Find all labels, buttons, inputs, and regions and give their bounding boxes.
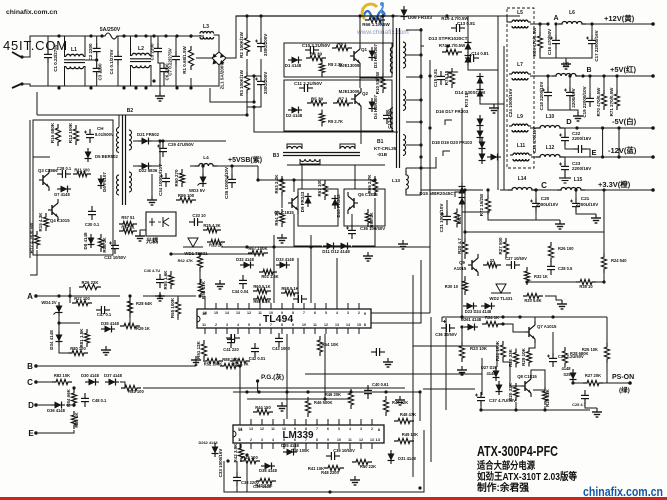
capacitor C46b — [156, 274, 164, 288]
svg-text:D1 4148: D1 4148 — [285, 63, 302, 68]
+5VSB output — [228, 155, 262, 164]
C22 label — [572, 131, 581, 136]
Q1 part label — [339, 63, 360, 68]
site logo — [362, 2, 385, 25]
svg-text:D16 D17 FR303: D16 D17 FR303 — [436, 109, 469, 114]
R2 label — [239, 31, 244, 58]
12v dot1 — [538, 22, 541, 25]
U1 pin stub bottom 12 — [336, 328, 338, 334]
capacitor C43 — [275, 333, 283, 347]
U1 pin number top 0 — [203, 311, 207, 315]
R8 label — [328, 62, 343, 67]
driver rail top — [287, 164, 385, 166]
svg-text:E: E — [28, 429, 34, 438]
Q2 part label — [339, 89, 360, 94]
capacitor C38 — [233, 472, 241, 486]
U3 pin number top 8 — [327, 427, 329, 431]
U1 pin9 — [364, 311, 367, 316]
node A — [553, 15, 558, 22]
R20 label — [457, 238, 462, 254]
R28p label — [570, 351, 588, 356]
svg-text:6: 6 — [314, 311, 316, 315]
resistor R17 — [34, 231, 39, 249]
capacitor C25p — [581, 390, 589, 404]
C5 leads — [157, 36, 159, 43]
C28r label — [558, 266, 573, 271]
junction dot 41 — [68, 294, 71, 297]
inductor L12 — [536, 155, 564, 158]
Q2 emitter wire — [360, 110, 362, 144]
D27d label — [481, 365, 498, 370]
U3 pin stub bot 9 — [338, 443, 340, 449]
C13 label — [457, 21, 476, 26]
texture label r73 — [464, 92, 469, 107]
driver top rail — [258, 166, 375, 180]
capacitor C15 — [437, 71, 445, 85]
12v cap gnd — [540, 49, 592, 58]
3v3 feed dot — [463, 188, 466, 191]
diode D27d — [493, 367, 500, 381]
C23 mid tap — [85, 59, 97, 61]
U1 pin number top 3 — [236, 311, 240, 315]
B1 sec tap 6 — [406, 167, 421, 169]
svg-text:3: 3 — [226, 323, 228, 327]
P.G. label — [261, 372, 284, 381]
U1 pin number bottom 5 — [259, 323, 261, 327]
c31 wires — [446, 200, 448, 211]
resistor R8 — [319, 60, 324, 77]
svg-text:D37 4148: D37 4148 — [104, 373, 122, 378]
U3 pin stub bot 0 — [239, 443, 241, 449]
+12V output label — [604, 13, 635, 23]
R9 label — [328, 119, 343, 124]
R85 label — [74, 412, 79, 428]
D3 label — [373, 43, 378, 68]
B2 label — [127, 108, 134, 114]
svg-text:3: 3 — [347, 311, 349, 315]
svg-text:2: 2 — [250, 438, 252, 442]
resistor R20p — [513, 349, 518, 368]
resistor R55 — [168, 271, 173, 289]
svg-text:C18 2200/10V: C18 2200/10V — [539, 82, 544, 111]
D27d label2 — [486, 371, 496, 376]
R19 label — [441, 16, 469, 21]
R01 label — [261, 274, 278, 279]
svg-text:MJE13009: MJE13009 — [339, 89, 360, 94]
node A dot — [546, 22, 549, 25]
inductor L8 — [552, 74, 580, 77]
inductor L10 — [536, 126, 564, 129]
dashed inductor box — [507, 8, 534, 168]
pson rail dot1 — [518, 315, 521, 318]
svg-text:15: 15 — [214, 311, 218, 315]
watermark www url — [356, 29, 409, 36]
svg-text:1: 1 — [239, 438, 241, 442]
svg-text:C33 10: C33 10 — [192, 213, 206, 218]
svg-text:C25 4.7: C25 4.7 — [572, 402, 586, 407]
svg-text:1: 1 — [204, 323, 206, 327]
pson out dot — [571, 381, 574, 384]
B1 primary top lead — [392, 16, 394, 47]
junction dot 51 — [238, 364, 241, 367]
R49b label — [255, 483, 272, 488]
diode D14a — [477, 73, 484, 87]
D30 label — [81, 373, 99, 378]
D4 label — [373, 94, 378, 119]
svg-text:D4 HER307: D4 HER307 — [373, 94, 378, 119]
svg-text:R32 1K: R32 1K — [534, 274, 548, 279]
C1 label — [53, 44, 58, 72]
svg-text:R80 100: R80 100 — [70, 346, 86, 351]
svg-text:11: 11 — [348, 438, 352, 442]
A filter box — [70, 281, 120, 296]
R25p label — [582, 347, 598, 352]
U3 pin stub top 2 — [261, 419, 263, 425]
resistor R65 — [372, 176, 377, 196]
5v rect join — [480, 100, 504, 104]
L2 label — [138, 46, 144, 52]
D7 label — [54, 192, 70, 197]
diode D34 — [56, 331, 63, 345]
diode D22s — [138, 163, 152, 170]
svg-text:R3 100K/1W: R3 100K/1W — [239, 69, 244, 96]
svg-text:6: 6 — [294, 438, 296, 442]
junction dot 54 — [418, 486, 421, 489]
svg-text:C42 0.01: C42 0.01 — [249, 356, 266, 361]
transformer B2 primary — [117, 128, 119, 196]
D33 label — [276, 257, 294, 262]
U3 pin number top 12 — [371, 427, 373, 431]
corridor vert 2 — [324, 334, 326, 399]
C4 label — [109, 49, 114, 74]
resistor R30p — [513, 383, 518, 401]
resistor R33 — [523, 293, 543, 298]
resistor R46b — [348, 389, 353, 409]
capacitor C44 — [239, 275, 247, 289]
svg-text:TL494: TL494 — [263, 313, 294, 325]
sec feed vert x498 — [497, 16, 499, 190]
rail link dots3 — [617, 126, 620, 129]
C12 label — [387, 109, 392, 129]
junction dot 6 — [152, 34, 155, 37]
fuse label — [100, 27, 121, 33]
C40 label — [372, 382, 389, 387]
svg-text:R16 680K: R16 680K — [50, 122, 55, 143]
junction dot 28 — [445, 14, 448, 17]
svg-text:R46 20K: R46 20K — [325, 392, 341, 397]
12v gnd stub — [556, 49, 566, 60]
svg-text:R24 540: R24 540 — [611, 258, 627, 263]
junction dot 15 — [175, 86, 178, 89]
b row long wire — [195, 356, 197, 366]
r55b wires — [177, 296, 179, 302]
resistor R63 — [279, 176, 284, 196]
bus left down — [30, 250, 37, 275]
ac plug dot2 — [20, 82, 23, 85]
U1 pin stub top 5 — [259, 303, 261, 309]
Q9 label — [459, 260, 465, 265]
svg-text:L5: L5 — [517, 10, 523, 16]
U3 pin stub bot 12 — [371, 443, 373, 449]
CH label2 — [95, 132, 114, 137]
junction dot 33 — [534, 188, 537, 191]
L4 to 5vsb — [214, 165, 258, 167]
svg-text:R27 500: R27 500 — [498, 237, 503, 255]
C5-C6 join — [158, 57, 164, 63]
R30 label — [445, 284, 459, 289]
R64 label — [274, 210, 279, 226]
svg-text:2: 2 — [215, 323, 217, 327]
capacitor C18b — [564, 87, 574, 101]
d34 bot — [59, 345, 70, 353]
U1 pin stub top 4 — [248, 303, 250, 309]
U3 pin number bot 6 — [305, 438, 307, 442]
svg-text:3: 3 — [261, 438, 263, 442]
svg-text:R10 51/2W: R10 51/2W — [375, 71, 380, 94]
svg-text:R73 15: R73 15 — [464, 92, 469, 107]
capacitor C12 — [383, 110, 391, 124]
sb L4 wire — [162, 141, 164, 143]
junction dot 7 — [164, 34, 167, 37]
capacitor C22 — [559, 132, 569, 146]
wd4 chain — [58, 316, 60, 331]
D23 D24 label — [465, 309, 492, 314]
U1 pin stub top 7 — [281, 303, 283, 309]
pson gnd wire — [585, 404, 597, 408]
sec join d18 — [443, 151, 450, 156]
B1 sec tap dot 3 — [419, 98, 422, 101]
pson c36 drop — [441, 317, 443, 322]
svg-text:D18 D19 D20 FR103: D18 D19 D20 FR103 — [432, 140, 473, 145]
svg-text:R42 3.9K: R42 3.9K — [233, 443, 238, 463]
svg-text:D32 4148: D32 4148 — [236, 257, 254, 262]
svg-text:2200U/10V: 2200U/10V — [576, 202, 599, 207]
svg-text:C11 2.2U/50V: C11 2.2U/50V — [294, 81, 322, 86]
PS-ON label2 — [619, 385, 630, 394]
r72 connect — [476, 189, 483, 191]
diode D12 — [337, 243, 351, 250]
capacitor C18 — [542, 87, 552, 101]
svg-text:CH: CH — [97, 126, 104, 131]
U1 pin number bottom 7 — [281, 323, 283, 327]
svg-text:C29 47U/50V: C29 47U/50V — [168, 142, 194, 147]
pson bot dot1 — [514, 408, 517, 411]
L4 label — [203, 155, 209, 160]
L2 leads4 — [150, 66, 151, 87]
texture label c24 — [508, 89, 513, 118]
diode D20 — [487, 154, 501, 161]
L5 label — [517, 10, 523, 16]
3v3 ctl vert right — [603, 190, 605, 257]
resistor R67r — [454, 209, 459, 228]
svg-text:11: 11 — [258, 311, 262, 315]
resistor R35 — [576, 279, 596, 284]
5v caps top — [547, 76, 549, 87]
pson left wire2 — [423, 388, 475, 390]
C long wire — [143, 387, 405, 389]
5v dots2 — [568, 74, 571, 77]
svg-text:R83 100: R83 100 — [128, 389, 144, 394]
U1 pin number top 4 — [247, 311, 251, 315]
U3 pin number bot 3 — [272, 438, 274, 442]
svg-text:2200/16V: 2200/16V — [572, 136, 591, 141]
junction dot 55 — [460, 315, 463, 318]
C28 label — [57, 166, 72, 171]
svg-text:(绿): (绿) — [619, 385, 630, 394]
diode D4 — [369, 98, 376, 112]
3v3 dot3 — [486, 188, 489, 191]
long wire left edge — [29, 120, 31, 258]
tl494 pin8 wire — [371, 260, 421, 323]
c22b to E rail — [587, 149, 590, 157]
C21 label — [581, 196, 590, 201]
R47 label — [392, 400, 408, 405]
C21 top — [575, 190, 577, 198]
svg-text:R7 1: R7 1 — [338, 97, 348, 102]
R49h label — [402, 432, 418, 437]
R15 label — [38, 212, 43, 232]
svg-text:制作:余君强: 制作:余君强 — [477, 481, 529, 494]
svg-text:R60 270: R60 270 — [174, 169, 179, 187]
resistor R57 — [119, 225, 137, 234]
U1 pin number top 1 — [214, 311, 218, 315]
svg-text:9: 9 — [292, 323, 294, 327]
rail link x619 — [618, 128, 620, 157]
diode D29p — [496, 381, 503, 395]
U3 pin number bot 7 — [316, 438, 318, 442]
junction dot 10 — [57, 86, 60, 89]
Q4 label — [50, 218, 70, 223]
resistor R1 — [188, 46, 193, 70]
b3 bot lead — [300, 159, 320, 164]
diode D9d — [305, 193, 312, 207]
5v caps top3 — [589, 76, 591, 93]
B1 label — [377, 139, 384, 145]
PS-ON label — [612, 374, 634, 381]
title line4 — [477, 481, 529, 494]
U3 pin stub bot 11 — [360, 443, 362, 449]
junction dot 17 — [152, 79, 155, 82]
C18 label — [539, 82, 544, 111]
pson out wire — [601, 382, 629, 384]
junction dot 40 — [128, 294, 131, 297]
diode D15b — [459, 194, 466, 208]
svg-text:D261 4148: D261 4148 — [461, 317, 482, 322]
svg-text:2200/16V: 2200/16V — [572, 166, 591, 171]
diode D13a — [465, 39, 472, 53]
resistor R27p — [583, 380, 603, 385]
3v3 ctl wires3 — [464, 276, 466, 281]
svg-text:5A/250V: 5A/250V — [100, 27, 121, 33]
junction dot 11 — [89, 86, 92, 89]
diode D32 — [240, 262, 254, 269]
L1 label — [71, 47, 77, 53]
capacitor C14 — [465, 54, 479, 62]
resistor R32 — [524, 267, 529, 285]
R67d label — [317, 179, 322, 197]
svg-text:R70 470/0.5W: R70 470/0.5W — [596, 87, 601, 117]
node C terminal — [34, 380, 38, 384]
Q1 label — [361, 47, 368, 52]
svg-text:适合大部分电源: 适合大部分电源 — [477, 459, 535, 472]
lm339 rail dot — [328, 490, 331, 493]
B1 sec tap 4 — [406, 121, 421, 123]
svg-text:R2 100K/1W: R2 100K/1W — [239, 31, 244, 58]
C7 leads — [175, 36, 177, 51]
U1 pin stub bottom 11 — [325, 328, 327, 334]
resistor R70 — [601, 90, 606, 110]
svg-text:22: 22 — [490, 258, 495, 263]
L15 label — [574, 177, 583, 183]
svg-text:R6 1: R6 1 — [337, 42, 347, 47]
R24 label — [611, 258, 627, 263]
svg-text:13: 13 — [335, 323, 339, 327]
transistor Q9 — [468, 254, 478, 276]
U3 pin stub top 11 — [360, 419, 362, 425]
resistor R57b — [119, 221, 137, 226]
junction dot 61 — [169, 252, 172, 255]
U3 pin stub bot 1 — [250, 443, 252, 449]
svg-text:C47 0.1: C47 0.1 — [97, 312, 112, 317]
svg-text:C10 2.2U/50V: C10 2.2U/50V — [302, 43, 330, 48]
ground secondary common — [489, 104, 499, 113]
junction dot 59 — [479, 408, 482, 411]
U3 pin1 — [238, 437, 241, 442]
svg-text:R74 4.7/0.5W: R74 4.7/0.5W — [439, 43, 466, 48]
U1 pin number top 8 — [292, 311, 294, 315]
b row to lm339 — [236, 366, 240, 419]
transformer B3 winding bottom — [300, 159, 320, 162]
junction dot 23 — [280, 178, 283, 181]
diode D31 — [388, 450, 395, 464]
lm339 mid rail — [247, 398, 351, 400]
capacitor C37 — [475, 392, 485, 406]
transistor Q4 — [48, 199, 58, 221]
sec join d16 — [445, 120, 452, 125]
C7 leads2 — [175, 65, 177, 86]
R35 label — [579, 284, 593, 289]
diode D261 — [464, 324, 478, 331]
U3 pin stub top 8 — [327, 419, 329, 425]
+3.3V output label — [598, 179, 631, 189]
ground 3v3b — [591, 214, 601, 223]
resistor R46v — [305, 397, 310, 417]
svg-text:www.chinafix.com: www.chinafix.com — [356, 29, 409, 36]
ground 3v3 ctl — [557, 300, 567, 309]
resistor R81 — [84, 329, 89, 347]
svg-text:C13 0.81: C13 0.81 — [457, 21, 476, 26]
svg-text:5: 5 — [248, 323, 250, 327]
pson left wire3 — [413, 346, 497, 367]
x498 dots — [497, 23, 499, 25]
R28 label — [136, 301, 152, 306]
L2 leads3 — [150, 36, 151, 56]
U3 pin number top 1 — [249, 427, 253, 431]
L5 feed — [507, 16, 509, 22]
B3 label — [273, 153, 280, 159]
C22 label2 — [572, 136, 591, 141]
b3 top leads — [287, 144, 302, 149]
D wire2 — [66, 404, 74, 406]
choke L2 — [130, 53, 151, 67]
tl494 pin9 wire — [371, 312, 430, 314]
ground A net — [101, 346, 111, 355]
svg-text:R63 2.2K: R63 2.2K — [274, 174, 279, 194]
B1 sec tap dot 0 — [419, 28, 422, 31]
IC U3 LM339 box — [233, 425, 384, 443]
resistor R49h — [394, 438, 414, 443]
L9-L10 — [530, 127, 540, 129]
